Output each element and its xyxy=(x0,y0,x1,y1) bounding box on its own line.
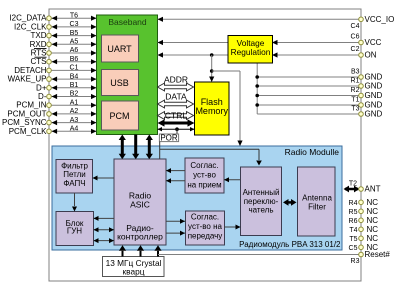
svg-text:B5: B5 xyxy=(70,30,79,37)
svg-text:VCC: VCC xyxy=(365,38,382,47)
svg-text:ГУН: ГУН xyxy=(67,227,82,236)
svg-text:C1: C1 xyxy=(70,65,79,72)
svg-text:B1: B1 xyxy=(70,82,79,89)
svg-text:R6: R6 xyxy=(349,218,358,225)
svg-text:VCC_IO: VCC_IO xyxy=(365,15,395,24)
svg-text:кварц: кварц xyxy=(123,267,145,277)
svg-text:A4: A4 xyxy=(70,126,79,133)
svg-text:переклю-: переклю- xyxy=(244,197,279,206)
svg-text:на прием: на прием xyxy=(187,180,221,189)
svg-text:Reset#: Reset# xyxy=(365,250,391,259)
svg-text:ADDR: ADDR xyxy=(164,74,188,84)
svg-text:GND: GND xyxy=(365,91,383,100)
svg-text:A1: A1 xyxy=(70,99,79,106)
svg-text:NC: NC xyxy=(367,216,379,225)
svg-text:PCM_IN: PCM_IN xyxy=(16,101,46,110)
svg-text:R4: R4 xyxy=(349,200,358,207)
svg-text:Regulation: Regulation xyxy=(231,47,271,57)
svg-text:PCM: PCM xyxy=(110,111,130,121)
svg-text:PCM_OUT: PCM_OUT xyxy=(7,109,46,118)
svg-text:PCM_CLK: PCM_CLK xyxy=(9,127,47,136)
svg-text:C2: C2 xyxy=(351,46,360,53)
svg-text:C5: C5 xyxy=(349,245,358,252)
svg-text:RTS: RTS xyxy=(31,49,47,58)
svg-text:T6: T6 xyxy=(70,12,78,19)
svg-text:NC: NC xyxy=(367,225,379,234)
svg-text:T1: T1 xyxy=(351,97,359,104)
svg-text:A5: A5 xyxy=(70,39,79,46)
svg-text:Baseband: Baseband xyxy=(108,17,147,27)
svg-text:C3: C3 xyxy=(70,21,79,28)
svg-text:ФАПЧ: ФАПЧ xyxy=(63,179,85,188)
svg-text:POR: POR xyxy=(160,134,178,143)
svg-text:уст-во: уст-во xyxy=(193,171,216,180)
svg-text:TXD: TXD xyxy=(31,31,47,40)
svg-text:Antenna: Antenna xyxy=(302,193,332,202)
svg-text:DETACH: DETACH xyxy=(14,66,47,75)
svg-text:Radio Modulle: Radio Modulle xyxy=(285,147,340,157)
svg-text:DATA: DATA xyxy=(165,92,187,102)
svg-text:RXD: RXD xyxy=(30,40,47,49)
svg-text:Радиомодуль PBA 313 01/2: Радиомодуль PBA 313 01/2 xyxy=(239,240,341,249)
svg-text:R2: R2 xyxy=(351,87,360,94)
svg-text:USB: USB xyxy=(110,78,129,88)
svg-text:A2: A2 xyxy=(70,108,79,115)
svg-text:CTRL: CTRL xyxy=(165,111,187,121)
svg-text:D+: D+ xyxy=(36,83,47,92)
svg-text:ASIC: ASIC xyxy=(130,199,150,209)
svg-text:B3: B3 xyxy=(351,69,360,76)
svg-text:B6: B6 xyxy=(70,56,79,63)
svg-text:NC: NC xyxy=(367,234,379,243)
svg-text:B2: B2 xyxy=(70,91,79,98)
svg-text:контроллер: контроллер xyxy=(117,232,163,242)
svg-text:PCM_SYNC: PCM_SYNC xyxy=(2,118,47,127)
svg-text:T2: T2 xyxy=(349,181,357,188)
svg-text:GND: GND xyxy=(365,82,383,91)
svg-text:T5: T5 xyxy=(349,236,357,243)
svg-text:T4: T4 xyxy=(349,227,357,234)
svg-text:GND: GND xyxy=(365,101,383,110)
svg-text:R1: R1 xyxy=(351,78,360,85)
svg-text:C6: C6 xyxy=(351,34,360,41)
svg-text:T3: T3 xyxy=(351,106,359,113)
svg-text:B4: B4 xyxy=(70,73,79,80)
svg-text:Соглас.: Соглас. xyxy=(190,161,218,170)
svg-text:R3: R3 xyxy=(351,258,360,265)
svg-text:ANT: ANT xyxy=(365,185,381,194)
svg-text:GND: GND xyxy=(365,110,383,119)
svg-text:C4: C4 xyxy=(351,23,360,30)
svg-text:уст-во на: уст-во на xyxy=(188,222,222,231)
svg-text:Memory: Memory xyxy=(195,106,228,116)
svg-text:чатель: чатель xyxy=(248,206,273,215)
svg-text:Антенный: Антенный xyxy=(243,188,280,197)
svg-text:WAKE_UP: WAKE_UP xyxy=(8,75,47,84)
svg-text:R5: R5 xyxy=(349,209,358,216)
svg-text:CTS: CTS xyxy=(31,57,47,66)
svg-text:I2C_CLK: I2C_CLK xyxy=(14,22,47,31)
svg-text:I2C_DATA: I2C_DATA xyxy=(9,14,47,23)
svg-text:Соглас.: Соглас. xyxy=(191,213,219,222)
svg-text:A6: A6 xyxy=(70,47,79,54)
svg-text:D-: D- xyxy=(38,92,47,101)
svg-text:NC: NC xyxy=(367,198,379,207)
svg-text:UART: UART xyxy=(107,44,132,54)
svg-text:Filter: Filter xyxy=(308,203,326,212)
svg-text:NC: NC xyxy=(367,207,379,216)
svg-text:ON: ON xyxy=(365,51,377,60)
svg-text:передачу: передачу xyxy=(188,231,223,240)
svg-text:GND: GND xyxy=(365,73,383,82)
svg-text:A3: A3 xyxy=(70,117,79,124)
